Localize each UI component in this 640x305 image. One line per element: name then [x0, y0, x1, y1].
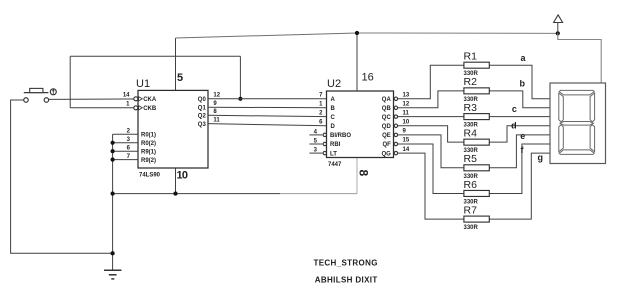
7-segment display [550, 83, 606, 164]
segment G middle [560, 122, 593, 126]
junction: bus and ground [111, 251, 115, 255]
svg-text:R5: R5 [464, 153, 478, 165]
segment D bottom [559, 150, 594, 155]
svg-text:U1: U1 [136, 78, 150, 90]
resistor R7 330R [464, 204, 490, 231]
svg-text:10: 10 [177, 169, 188, 181]
svg-text:14: 14 [123, 93, 130, 99]
svg-text:11: 11 [403, 110, 410, 116]
wire: R5 to display e [489, 135, 550, 168]
svg-text:BI/RBO: BI/RBO [330, 133, 351, 139]
svg-text:R0(1): R0(1) [141, 132, 156, 138]
svg-text:CKA: CKA [143, 97, 157, 103]
resistor R4 330R [464, 128, 490, 155]
wire: U1 pin 10 to rail [175, 168, 177, 194]
junction: pin16 on VCC [355, 31, 359, 35]
svg-text:7447: 7447 [328, 162, 342, 168]
segment C bottom-right [590, 125, 595, 152]
resistor R6 330R [464, 179, 490, 206]
wire: U1 R9(1) pin wire [113, 150, 138, 152]
svg-text:10: 10 [403, 120, 410, 126]
svg-text:14: 14 [403, 147, 410, 153]
svg-text:d: d [511, 121, 517, 131]
U2 stub LT pin 3 [309, 152, 322, 154]
svg-text:ABHILSH DIXIT: ABHILSH DIXIT [315, 276, 378, 285]
wire: U1 R9(2) pin wire [113, 159, 138, 161]
wire: GND horizontal rail y=193.6 (right part, faint) [280, 193, 357, 195]
wire: VCC sloped to U2 pin16 [176, 33, 358, 38]
wire: U2 pin 8 to rail [356, 158, 358, 194]
wire: GND vertical bus at x=112.6 [112, 134, 114, 270]
resistor R3 330R [464, 102, 490, 129]
junction: R9(2) on bus [111, 158, 115, 162]
wire: Q0 to A [208, 98, 327, 100]
svg-text:C: C [331, 115, 336, 121]
wire: U1 pin 5 vertical [175, 38, 177, 90]
svg-text:QA: QA [382, 97, 392, 103]
svg-text:R9(2): R9(2) [141, 158, 156, 164]
svg-text:B: B [331, 106, 336, 112]
wire: GND left vertical from button [11, 100, 113, 253]
wire: VCC horizontal to power node [357, 32, 558, 34]
svg-text:QG: QG [381, 151, 391, 157]
junction: pin10 and rail [173, 192, 177, 196]
junction: power node [556, 31, 560, 35]
wire: R4 to display d [489, 126, 550, 142]
segment A top [559, 90, 594, 95]
wire: QG to R7 [398, 153, 464, 219]
junction: R9(1) on bus [111, 149, 115, 153]
svg-text:D: D [331, 124, 336, 130]
wire: U2 pin 16 vertical [356, 33, 358, 91]
junction: bus and rail [111, 192, 115, 196]
svg-text:QE: QE [382, 133, 391, 139]
svg-text:c: c [512, 104, 517, 114]
segment F top-left [559, 93, 564, 122]
junction: feedback on Q0 wire [238, 97, 242, 101]
wire: QD to R4 [398, 126, 464, 142]
svg-text:TECH_STRONG: TECH_STRONG [314, 259, 378, 268]
junction: R0(2) on bus [111, 141, 115, 145]
wire: R7 to display g [489, 153, 550, 219]
svg-text:R2: R2 [464, 76, 478, 88]
svg-text:5: 5 [177, 72, 183, 84]
wire: QE to R5 [398, 135, 464, 168]
svg-text:R6: R6 [464, 179, 478, 191]
wire: U1 R0(1) pin wire [113, 133, 138, 135]
U2 stub BI/RBO pin 4 [309, 134, 322, 136]
svg-text:12: 12 [213, 93, 220, 99]
wire: GND horizontal rail y=193.6 (left part) [113, 193, 280, 195]
IC U1 74LS90 [123, 72, 208, 181]
svg-text:g: g [538, 152, 544, 162]
wire: feedback left vertical [69, 56, 71, 108]
wire: R2 to display b [489, 91, 550, 108]
wire: QF to R6 [398, 144, 464, 193]
svg-text:330R: 330R [464, 225, 479, 231]
wire: Q2 to C [208, 115, 327, 116]
svg-text:QB: QB [382, 106, 392, 112]
svg-text:R1: R1 [464, 51, 478, 63]
svg-text:12: 12 [403, 102, 410, 108]
wire: Q3 to D [208, 124, 327, 126]
svg-text:QD: QD [382, 124, 392, 130]
svg-text:e: e [520, 131, 525, 141]
svg-text:Q0: Q0 [198, 97, 207, 103]
resistor R5 330R [464, 153, 490, 180]
svg-text:R7: R7 [464, 204, 478, 216]
svg-text:A: A [331, 97, 336, 103]
wire: feedback right vertical to Q0 [239, 56, 241, 99]
U2 stub RBI pin 5 [309, 143, 322, 145]
svg-text:QC: QC [382, 115, 392, 121]
wire: Q1 to B [208, 106, 327, 109]
wire: R3 to display c [489, 116, 550, 118]
wire: QA to R1 [398, 65, 464, 99]
U2 output bubbles [394, 97, 397, 100]
resistor R1 330R [464, 51, 490, 78]
ground [104, 270, 122, 279]
svg-text:Q3: Q3 [198, 122, 207, 128]
svg-text:11: 11 [213, 117, 220, 123]
push button SW [24, 88, 57, 102]
svg-text:R0(2): R0(2) [141, 141, 156, 147]
svg-text:8: 8 [356, 169, 370, 176]
svg-text:QF: QF [382, 142, 391, 148]
svg-text:RBI: RBI [330, 142, 341, 148]
svg-text:74LS90: 74LS90 [139, 172, 161, 178]
svg-text:16: 16 [362, 72, 374, 84]
wire: QB to R2 [398, 91, 464, 108]
segment E bottom-left [559, 125, 564, 152]
wire: CKB feedback top horizontal [70, 55, 240, 57]
wire: R6 to display f [489, 144, 550, 193]
IC U2 7447 [309, 72, 409, 177]
segment B top-right [590, 93, 595, 122]
svg-text:Q2: Q2 [198, 114, 207, 120]
svg-text:R9(1): R9(1) [141, 149, 156, 155]
wire: QC to R3 [398, 116, 464, 118]
svg-text:CKB: CKB [143, 106, 157, 112]
svg-text:R3: R3 [464, 102, 478, 114]
resistor R2 330R [464, 76, 490, 103]
svg-text:LT: LT [330, 151, 337, 157]
svg-text:U2: U2 [327, 78, 341, 90]
power symbol VCC arrow [554, 15, 563, 34]
svg-text:13: 13 [403, 93, 410, 99]
svg-text:b: b [520, 79, 526, 89]
wire: U1 R0(2) pin wire [113, 142, 138, 144]
svg-text:R4: R4 [464, 128, 478, 140]
svg-text:Q1: Q1 [198, 105, 207, 111]
wire: CKB pin wire [70, 107, 133, 109]
wire: button to CKA [49, 98, 134, 100]
wire: R1 to display a [489, 65, 550, 99]
svg-text:15: 15 [403, 138, 410, 144]
wire: VCC step down to display [558, 33, 601, 83]
